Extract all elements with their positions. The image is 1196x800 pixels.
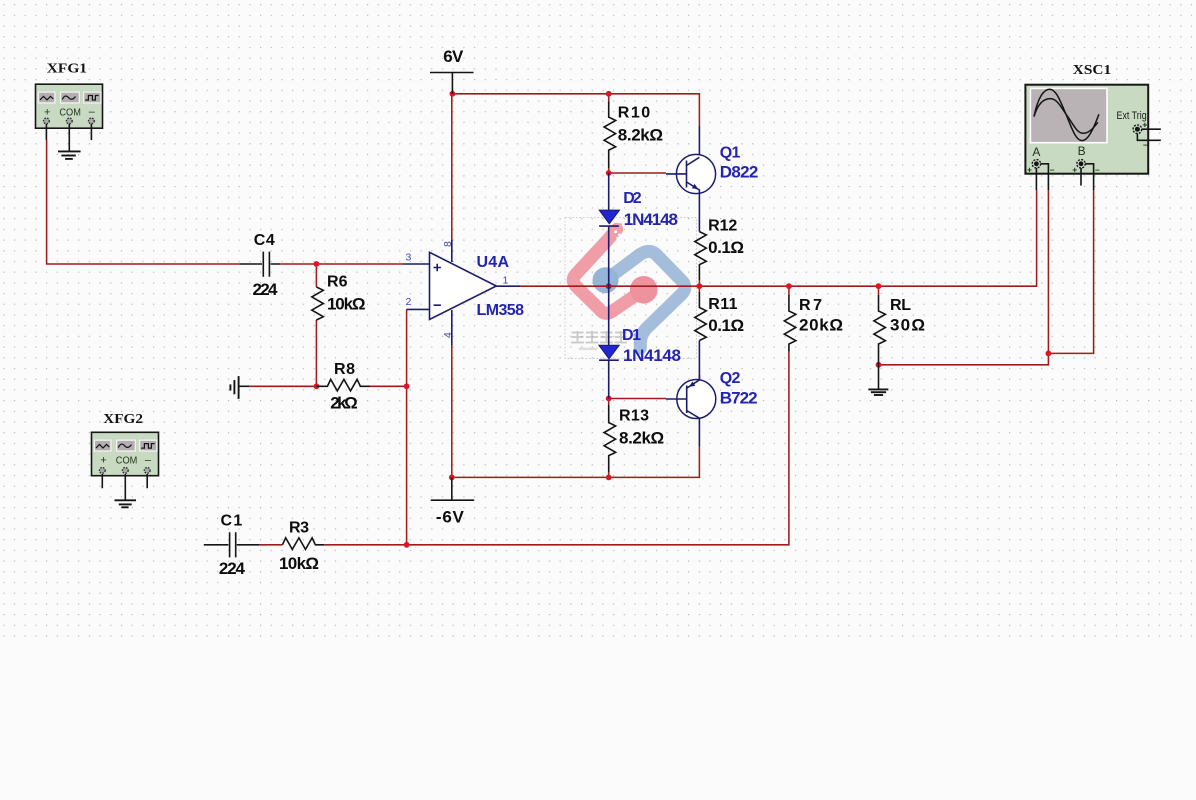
svg-text:B: B	[1078, 144, 1086, 158]
resistor R13	[604, 405, 664, 472]
wire pin2 vertical	[406, 309, 408, 544]
svg-text:XSC1: XSC1	[1073, 63, 1111, 78]
svg-text:20kΩ: 20kΩ	[799, 316, 843, 335]
svg-text:10kΩ: 10kΩ	[279, 554, 319, 573]
svg-text:XFG2: XFG2	[103, 412, 143, 427]
svg-text:R12: R12	[708, 217, 737, 234]
power -6V supply	[431, 477, 474, 526]
wire Q1 base	[609, 172, 666, 174]
wire R10 bottom stub	[608, 168, 610, 173]
svg-text:10kΩ: 10kΩ	[327, 295, 366, 314]
XSC1 Ext Trig terminal	[1133, 125, 1142, 134]
svg-text:+: +	[1027, 164, 1032, 174]
capacitor C1	[204, 513, 259, 578]
svg-text:0.1Ω: 0.1Ω	[708, 238, 744, 257]
svg-text:D1: D1	[622, 327, 641, 344]
svg-text:4: 4	[442, 332, 454, 338]
diode D2 1N4148	[599, 173, 678, 286]
svg-text:1N4148: 1N4148	[624, 210, 678, 229]
svg-text:XFG1: XFG1	[47, 62, 87, 77]
svg-text:–: –	[1050, 164, 1055, 174]
XFG1 terminals + COM -	[44, 118, 95, 124]
diode D1 1N4148	[599, 286, 681, 398]
ground XFG1 COM	[58, 128, 81, 159]
pink link of watermark	[573, 229, 643, 313]
XSC1 terminal B	[1077, 160, 1085, 168]
XSC1 trace A	[1034, 89, 1099, 140]
wire bottom rail R3 to R7	[324, 352, 789, 545]
XSC1 screen frame	[1030, 88, 1108, 144]
wire R12 bottom stub	[698, 280, 700, 292]
wire Q2 base	[609, 398, 666, 400]
junction R10 bottom / Q1 base	[606, 170, 612, 176]
junction R8 right / pin2	[404, 383, 410, 389]
wire pin8 column	[451, 94, 453, 240]
svg-text:LM358: LM358	[477, 302, 525, 319]
svg-text:1N4148: 1N4148	[623, 346, 681, 365]
XFG2 waveform buttons	[94, 440, 157, 451]
junction R13 bottom	[606, 475, 612, 481]
svg-text:B722: B722	[720, 389, 758, 408]
junction D1/D2 output	[606, 283, 612, 289]
resistor R7	[784, 295, 843, 352]
wire C4 to op-amp pin3	[280, 263, 403, 265]
blue circle	[593, 267, 619, 293]
junction 6V rail left	[450, 91, 456, 97]
XSC1 terminal A	[1032, 160, 1040, 168]
svg-text:8: 8	[442, 241, 454, 247]
ground under RL	[868, 365, 888, 395]
resistor R3	[279, 519, 324, 573]
blue floating dots near blue tail	[633, 333, 640, 345]
blue link of watermark	[606, 251, 685, 348]
XFG2 body	[92, 432, 159, 475]
svg-text:–: –	[1095, 164, 1100, 174]
svg-text:0.1Ω: 0.1Ω	[708, 316, 744, 335]
resistor R10	[604, 102, 663, 169]
svg-text:U4A: U4A	[477, 254, 510, 271]
watermark chinese text	[571, 331, 627, 343]
svg-text:+: +	[1142, 120, 1147, 130]
svg-text:R8: R8	[334, 361, 355, 378]
pink circle	[630, 276, 658, 304]
transistor Q2 B722	[666, 370, 758, 447]
pink floating dot	[618, 223, 622, 227]
XSC1 trace B	[1034, 99, 1098, 134]
svg-text:224: 224	[253, 280, 279, 299]
XFG1 waveform buttons	[38, 92, 100, 103]
XSC1 body	[1025, 85, 1148, 174]
svg-text:D822: D822	[720, 162, 759, 181]
wire R8 to pin2 column	[370, 385, 407, 387]
svg-text:R7: R7	[799, 297, 822, 314]
junction -6V supply	[449, 475, 455, 481]
svg-text:6V: 6V	[443, 47, 464, 66]
XFG2 terminal stub wires	[102, 474, 147, 488]
svg-text:RL: RL	[890, 297, 911, 314]
junction R12/R11 output	[697, 283, 703, 289]
wire top +6V rail	[452, 94, 699, 126]
wire ground node to B-	[1048, 190, 1093, 353]
wire scope A- stub	[1041, 164, 1049, 190]
grid dots	[0, 0, 1196, 637]
svg-text:2kΩ: 2kΩ	[330, 394, 358, 413]
svg-text:+: +	[100, 455, 106, 467]
wire scope B- stub	[1085, 164, 1093, 190]
wire ground to R8	[249, 385, 316, 387]
junction RL bottom	[876, 362, 882, 368]
junction C4/R6	[314, 261, 320, 267]
junction bottom rail / pin2 column	[404, 542, 410, 548]
svg-text:30Ω: 30Ω	[890, 316, 925, 335]
wire R10 top stub	[608, 94, 610, 102]
junction R10 top	[606, 91, 612, 97]
resistor R6	[312, 274, 366, 320]
resistor R12	[695, 194, 744, 281]
wire scope A- vertical	[1047, 190, 1049, 353]
svg-text:C1: C1	[221, 513, 243, 530]
svg-text:3: 3	[406, 252, 412, 264]
wire XFG1+ to input line	[47, 140, 240, 264]
svg-text:–: –	[1143, 140, 1148, 150]
junction R8 left	[314, 383, 320, 389]
svg-text:COM: COM	[59, 106, 81, 118]
svg-text:8.2kΩ: 8.2kΩ	[618, 125, 663, 144]
XSC1 Ext Trig stub wires	[1137, 129, 1160, 140]
power +6V supply	[430, 47, 474, 94]
junction scope A- node	[1046, 351, 1052, 357]
wire scope A+ stub	[1035, 168, 1037, 190]
svg-text:Q1: Q1	[720, 144, 741, 161]
svg-text:R11: R11	[708, 296, 737, 313]
XFG1 body	[36, 84, 103, 128]
ground XFG2 COM	[115, 476, 137, 508]
svg-text:COM: COM	[116, 455, 138, 467]
wire -6V rail	[452, 447, 700, 478]
svg-text:+: +	[1072, 164, 1077, 174]
svg-text:1: 1	[503, 275, 509, 287]
svg-text:R13: R13	[619, 408, 649, 425]
wire R6 top lead	[315, 264, 317, 287]
ground left (rotated, near R8)	[230, 376, 249, 399]
wire R6 bottom lead	[315, 320, 317, 386]
watermark small caption	[579, 348, 597, 351]
wire scope B+ stub (unconnected)	[1080, 168, 1082, 186]
svg-text:D2: D2	[623, 190, 641, 207]
svg-text:8.2kΩ: 8.2kΩ	[619, 428, 664, 447]
wire RL to scope ground node	[879, 353, 1049, 364]
selection dashed box around D1/D2	[565, 218, 697, 359]
wire pin4 column	[451, 345, 453, 477]
XFG1 terminal stub wires	[46, 124, 91, 140]
XFG2 terminals + COM -	[99, 468, 150, 474]
watermark logo	[571, 223, 685, 350]
svg-text:R10: R10	[618, 104, 650, 121]
resistor R8	[316, 361, 370, 413]
junction D1 bottom / Q2 base	[606, 396, 612, 402]
transistor Q1 D822	[666, 126, 758, 194]
svg-text:C4: C4	[254, 232, 275, 249]
svg-text:A: A	[1032, 145, 1040, 159]
XSC1 screen	[1031, 89, 1106, 142]
junction R7 top	[786, 283, 792, 289]
svg-text:–: –	[89, 106, 96, 118]
wire R13 stubs	[608, 399, 610, 478]
junction RL top	[876, 283, 882, 289]
op-amp U4A LM358	[403, 240, 524, 345]
wire R7 top stub	[788, 286, 790, 295]
svg-text:Q2: Q2	[720, 370, 741, 387]
wire RL top stub	[878, 286, 880, 295]
svg-text:-6V: -6V	[436, 507, 465, 526]
svg-text:+: +	[44, 106, 50, 118]
capacitor C4	[240, 232, 280, 299]
svg-text:R6: R6	[327, 274, 348, 291]
white perforation dots on pink tail	[614, 230, 621, 239]
svg-text:2: 2	[406, 296, 412, 308]
svg-text:–: –	[145, 454, 152, 466]
wire R3 left red segment	[259, 544, 282, 546]
resistor R11	[695, 292, 744, 380]
resistor RL	[874, 295, 925, 365]
svg-text:224: 224	[219, 559, 246, 578]
wire output rail	[520, 190, 1037, 286]
svg-text:R3: R3	[289, 519, 309, 536]
